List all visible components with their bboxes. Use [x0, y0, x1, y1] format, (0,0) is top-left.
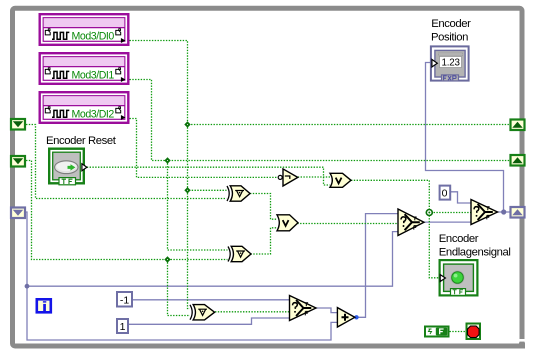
- select function S2: [471, 200, 498, 225]
- wire Mod3/DI0 net to SR1 right, XOR G1, XOR G3: [130, 41, 510, 309]
- wire SR2 left to XOR G2 bottom and XOR G3 bottom: [26, 161, 228, 316]
- wire select S2 out to SR3 right and Encoder Position: [426, 63, 510, 213]
- add function U1: [337, 308, 354, 327]
- svg-text:0: 0: [442, 187, 448, 199]
- junction J5 on SR2 net: [164, 256, 170, 262]
- svg-text:1.23: 1.23: [442, 58, 461, 69]
- svg-text:Endlagensignal: Endlagensignal: [439, 246, 511, 258]
- shift register SR2 left: [11, 156, 25, 167]
- numeric constant -1: [117, 292, 132, 307]
- svg-text:Mod3/DI0: Mod3/DI0: [72, 31, 115, 43]
- wire Encoder Reset to OR G4 bottom input: [87, 167, 330, 185]
- svg-text:-1: -1: [120, 294, 129, 306]
- numeric indicator Encoder Position: [431, 46, 469, 81]
- wire OR G6 out to select S1 s input: [297, 223, 398, 225]
- wire NOT G5 out to OR G4 top input: [298, 176, 330, 178]
- junction J1 on DI0 net: [184, 121, 190, 127]
- svg-text:1: 1: [120, 321, 126, 333]
- numeric constant 1: [117, 319, 128, 333]
- svg-text:Mod3/DI1: Mod3/DI1: [72, 70, 115, 82]
- wire select S3 out to add U1 top input: [316, 308, 337, 313]
- svg-text:Position: Position: [431, 31, 468, 43]
- wire OR G4 out to select S2 s and Endlagensignal: [351, 180, 471, 277]
- XOR gate G1: [227, 186, 250, 201]
- junction dot at select S2 output: [501, 209, 506, 214]
- NOT gate G5: [278, 169, 298, 186]
- svg-text:Encoder: Encoder: [431, 18, 471, 30]
- XOR gate G2: [228, 246, 251, 261]
- wire Mod3/DI2 to NOT G5 input: [130, 119, 279, 178]
- numeric constant 0: [440, 186, 451, 200]
- boolean constant F: [425, 327, 449, 337]
- OR gate G6: [277, 215, 298, 231]
- iteration terminal i: [37, 299, 51, 312]
- OR gate G4: [330, 173, 351, 187]
- coercion dot at add U1 output: [354, 315, 358, 319]
- svg-text:Encoder: Encoder: [439, 233, 479, 245]
- wire add U1 out up to select S1 t input: [355, 214, 398, 318]
- FPGA IO node Mod3/DI1: [40, 53, 129, 84]
- shift register SR1 left: [11, 119, 25, 130]
- select function S3: [290, 296, 317, 321]
- wire XOR G3 out to select S3 s input: [215, 311, 290, 313]
- wire F constant to loop stop terminal: [450, 331, 466, 333]
- wire -1 to select S3 t input (blue): [133, 299, 290, 301]
- loop condition stop terminal: [467, 324, 481, 340]
- wire XOR G1 out to OR G6 top input: [250, 194, 277, 220]
- select function S1: [398, 209, 424, 236]
- wire select S1 out to select S2 f input: [424, 221, 471, 223]
- junction J4 ring on reset net: [426, 210, 432, 216]
- junction J6 blue dot on SR3 net: [25, 284, 30, 289]
- wire 1 constant to select S3 f input: [129, 318, 290, 324]
- wire 0 constant to select S2 t input: [451, 192, 472, 203]
- svg-text:Mod3/DI2: Mod3/DI2: [72, 109, 115, 121]
- shift register SR2 right: [511, 155, 525, 166]
- wire shift register SR3 left to select S1 f and add U1 bottom: [26, 212, 398, 340]
- junction J3 on DI1 net: [164, 157, 170, 163]
- wire XOR G2 out to OR G6 bottom input: [251, 228, 277, 254]
- shift register SR3 left: [11, 208, 25, 219]
- boolean indicator Encoder Endlagensignal: [440, 260, 478, 295]
- junction J2 on DI0 net: [184, 187, 190, 193]
- FPGA IO node Mod3/DI2: [40, 92, 129, 123]
- wire SR1 left to XOR G1 bottom input: [26, 125, 227, 199]
- svg-text:Encoder Reset: Encoder Reset: [46, 135, 117, 147]
- wire Mod3/DI1 net to SR2 right and XOR G2: [130, 80, 510, 251]
- shift register SR1 right: [511, 120, 525, 131]
- shift register SR3 right: [511, 207, 525, 218]
- FPGA IO node Mod3/DI0: [40, 14, 129, 45]
- XOR gate G3: [190, 305, 215, 320]
- boolean control Encoder Reset: [49, 149, 87, 185]
